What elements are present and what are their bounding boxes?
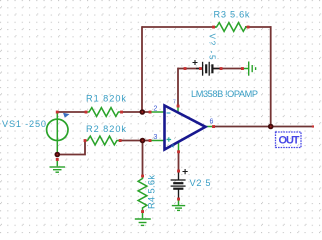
op-amp pin number 2 xyxy=(154,106,158,113)
wire feedback right vertical xyxy=(270,26,272,126)
op-amp non-inverting input mark xyxy=(167,137,172,142)
wire inverting input row xyxy=(57,111,150,113)
ground (R4) xyxy=(135,212,151,226)
pin dot op-amp pin2 xyxy=(149,111,152,114)
junction node at VS1 ground xyxy=(55,152,61,158)
pin dot R4 top xyxy=(141,175,144,178)
VS1 label xyxy=(2,119,46,129)
pin dot V2 top xyxy=(177,170,180,173)
pin dot op-amp pin7 xyxy=(177,105,180,108)
op-amp type label LM358B !OPAMP xyxy=(191,89,258,99)
op-amp U1 pin 4 power stub xyxy=(178,142,180,153)
wire V- drop to V2 xyxy=(178,152,180,172)
wire R4 drop from node xyxy=(142,141,144,177)
svg-text:LM358B !OPAMP: LM358B !OPAMP xyxy=(191,89,258,99)
pin dot op-amp pin4 xyxy=(177,150,180,153)
svg-text:R4 5.6k: R4 5.6k xyxy=(147,175,157,209)
op-amp inverting input mark xyxy=(167,112,171,114)
pin dot output wire end xyxy=(312,125,314,127)
pin dot V2 ground xyxy=(177,198,180,201)
ground (V2 battery) xyxy=(172,199,185,210)
resistor R4 (vertical) xyxy=(138,177,147,211)
svg-text:7: 7 xyxy=(173,100,176,106)
op-amp pin number 7 xyxy=(173,100,176,106)
wire from VS1 ground node to R2 xyxy=(57,141,85,155)
wire V+ vertical to op-amp power pin xyxy=(177,68,179,106)
op-amp U1 pin 6 output stub xyxy=(206,126,215,128)
battery V? value label (rotated) xyxy=(208,34,217,60)
junction node at output/feedback xyxy=(268,124,274,130)
voltage source VS1 xyxy=(47,113,68,154)
junction node at non-inverting input xyxy=(140,138,146,144)
ground (V+ battery, sideways) xyxy=(243,62,256,76)
wire V+ battery row xyxy=(178,68,243,70)
wire output row xyxy=(214,126,314,128)
wire non-inverting input row xyxy=(120,140,150,142)
pin dot R2 right xyxy=(119,139,122,142)
svg-text:2: 2 xyxy=(154,106,158,113)
pin dot VS1 ground pin xyxy=(56,158,59,161)
op-amp pin number 4 xyxy=(171,144,174,150)
resistor R3 xyxy=(215,23,249,32)
R1 value label xyxy=(86,94,126,104)
pin dot R4 bottom xyxy=(141,210,144,213)
svg-text:V2 5: V2 5 xyxy=(190,178,211,188)
op-amp U1 pin 2 stub xyxy=(150,111,164,113)
battery V2 (vertical) xyxy=(171,172,186,200)
pin dot R2 left xyxy=(84,139,87,142)
pin dot R3 right xyxy=(247,26,250,29)
op-amp U1 pin 3 stub xyxy=(150,140,164,142)
pin dot battery left xyxy=(199,67,202,70)
svg-text:V? -5: V? -5 xyxy=(208,34,217,60)
pin dot R1 right xyxy=(120,111,123,114)
battery V2 value label xyxy=(190,178,211,188)
pin dot R1 left xyxy=(85,111,88,114)
node OUT flag xyxy=(276,132,302,148)
op-amp U1 triangle xyxy=(165,106,206,150)
R2 value label xyxy=(86,124,126,134)
battery V? (horizontal) xyxy=(196,62,221,76)
pin dot op-amp output xyxy=(212,125,215,128)
op-amp U1 pin 7 power stub xyxy=(177,106,179,113)
battery V2 plus sign xyxy=(183,169,188,174)
R4 value label (rotated) xyxy=(147,175,157,209)
svg-text:R3 5.6k: R3 5.6k xyxy=(214,10,250,20)
battery V? plus sign xyxy=(193,60,198,65)
op-amp pin number 6 xyxy=(210,119,214,126)
pin dot battery row a xyxy=(184,67,187,70)
resistor R2 xyxy=(86,136,120,145)
svg-text:4: 4 xyxy=(171,144,174,150)
ground (VS1) xyxy=(50,159,66,172)
wire feedback top horizontal left segment xyxy=(142,26,216,28)
svg-text:R2 820k: R2 820k xyxy=(86,124,126,134)
pin dot R3 left xyxy=(212,26,215,29)
junction node at inverting input xyxy=(140,109,146,115)
op-amp pin number 3 xyxy=(154,134,158,141)
R3 value label xyxy=(214,10,250,20)
svg-text:VS1 -250: VS1 -250 xyxy=(2,119,46,129)
svg-text:3: 3 xyxy=(154,134,158,141)
svg-text:R1 820k: R1 820k xyxy=(86,94,126,104)
svg-text:OUT: OUT xyxy=(279,135,300,147)
VS1 reference arrow xyxy=(63,113,70,118)
svg-text:6: 6 xyxy=(210,119,214,126)
pin dot op-amp pin3 xyxy=(149,139,152,142)
wire feedback top horizontal right segment xyxy=(245,26,272,28)
pin dot VS1 top xyxy=(56,111,59,114)
pin dot battery right xyxy=(220,67,223,70)
wire feedback left vertical xyxy=(141,26,143,112)
pin dot sideways ground xyxy=(241,67,244,70)
resistor R1 xyxy=(87,108,121,117)
